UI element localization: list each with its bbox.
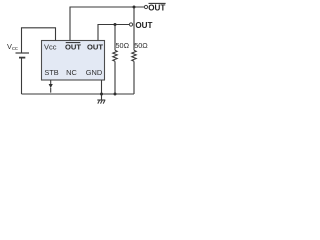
svg-text:Vcc: Vcc: [44, 42, 57, 51]
svg-text:OUT: OUT: [87, 43, 103, 52]
svg-text:50Ω: 50Ω: [134, 41, 148, 50]
svg-text:OUT: OUT: [65, 43, 81, 52]
svg-text:OUT: OUT: [148, 3, 165, 12]
svg-text:GND: GND: [86, 68, 102, 77]
svg-text:OUT: OUT: [135, 21, 152, 30]
svg-text:50Ω: 50Ω: [116, 41, 130, 50]
svg-text:NC: NC: [66, 68, 77, 77]
svg-text:STB: STB: [44, 68, 58, 77]
